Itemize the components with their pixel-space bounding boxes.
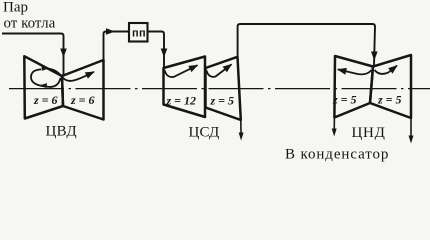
- svg-text:ЦВД: ЦВД: [46, 124, 77, 140]
- svg-text:от котла: от котла: [4, 16, 56, 32]
- wire: crossover pipe ЦСД to ЦНД: [238, 24, 375, 65]
- arrow on main steam line (down): [60, 49, 67, 58]
- svg-text:В конденсатор: В конденсатор: [285, 146, 389, 162]
- wire: condenser exhaust left: [333, 118, 335, 133]
- turbine cylinder ЦНД (LP), right half: [370, 55, 411, 118]
- svg-text:z = 6: z = 6: [33, 93, 58, 107]
- flow arrow ЦНД left (to the left): [338, 69, 372, 74]
- svg-text:z = 5: z = 5: [377, 93, 402, 107]
- flow arrow ЦНД right (to the right): [375, 66, 398, 74]
- arrow on riser (right): [106, 28, 115, 35]
- turbine cylinder ЦНД (LP), left half: [334, 56, 373, 118]
- svg-text:z = 5: z = 5: [210, 94, 235, 108]
- svg-text:z = 6: z = 6: [70, 93, 95, 107]
- flow loop arrow inside ЦВД left half: [41, 78, 61, 87]
- turbine cylinder ЦСД section 2: [206, 57, 241, 120]
- svg-text:z = 12: z = 12: [166, 94, 197, 108]
- flow arrow in ЦСД section 2: [207, 64, 232, 77]
- wire: condenser exhaust right: [410, 118, 412, 139]
- turbine cylinder ЦСД section 1: [164, 57, 206, 118]
- arrow on crossover (down into ЦНД): [371, 52, 378, 61]
- wire: main steam line from boiler into HP cylinder: [2, 34, 64, 76]
- turbine cylinder ЦВД (HP), left half: [24, 56, 63, 118]
- wire: ЦВД exhaust riser to reheater: [104, 32, 129, 61]
- svg-text:ЦСД: ЦСД: [189, 125, 220, 141]
- arrow on ЦСД inlet (down): [161, 49, 168, 58]
- turbine cylinder ЦВД (HP), right half: [62, 60, 104, 120]
- shaft axis (dash-dot centerline): [9, 88, 430, 90]
- svg-text:пп: пп: [132, 28, 146, 40]
- reheater box ПП: [129, 23, 148, 42]
- flow arrow through ЦВД right half: [48, 69, 95, 81]
- wire: ЦСД bottom extraction arrow: [240, 120, 242, 136]
- svg-text:z = 5: z = 5: [332, 93, 357, 107]
- svg-text:ЦНД: ЦНД: [352, 125, 386, 141]
- wire: reheater to ЦСД inlet: [147, 32, 164, 68]
- svg-text:Пар: Пар: [3, 0, 28, 16]
- flow arrow in ЦСД section 1: [165, 65, 198, 77]
